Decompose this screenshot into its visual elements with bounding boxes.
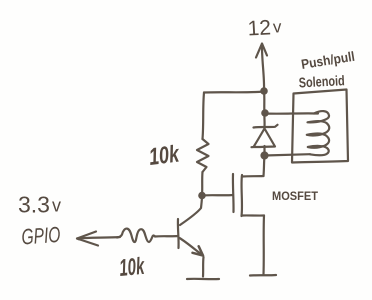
value label 10k for R1 (147, 140, 181, 171)
node junction dot C (solenoid top) (261, 109, 269, 117)
ground (BJT emitter) (187, 278, 219, 281)
svg-text:MOSFET: MOSFET (272, 189, 319, 203)
wire dot D to solenoid coil bottom (265, 154, 311, 155)
label 3.3v (18, 192, 61, 218)
wire node B to MOSFET gate (202, 194, 233, 197)
node junction dot D (solenoid bottom / drain) (260, 151, 268, 159)
GPIO arrow (pointing left) (77, 232, 120, 246)
label GPIO (21, 222, 62, 250)
MOSFET Q2 channel bar (240, 175, 243, 216)
wire R1 to node B (201, 172, 204, 195)
wire rail dot A to dot C (263, 91, 266, 114)
svg-text:10k: 10k (147, 140, 181, 171)
resistor R2 10k (horizontal, base) (117, 229, 155, 242)
ground (MOSFET source) (250, 274, 276, 277)
label Solenoid (298, 72, 345, 90)
wire left branch vertical down (203, 93, 205, 140)
label 12v supply (247, 16, 283, 41)
svg-text:3.3v: 3.3v (18, 192, 61, 218)
wire top horizontal to left branch (204, 92, 264, 93)
svg-text:10k: 10k (118, 253, 146, 282)
svg-text:12v: 12v (247, 16, 283, 41)
label Push/pull (300, 49, 356, 72)
transistor Q1 NPN: base bar (177, 219, 180, 248)
diode D1 cathode bar (254, 125, 278, 128)
diode D1 triangle (252, 129, 276, 148)
transistor Q1 NPN: emitter with arrow (180, 238, 204, 256)
wire dot C to diode cathode (263, 114, 265, 127)
resistor R1 10k (vertical) (197, 139, 209, 172)
power arrow 12V (256, 44, 267, 91)
wire dot C to solenoid coil (265, 112, 318, 115)
wire base in (155, 235, 178, 238)
wire source down (262, 216, 265, 275)
wire emitter down (202, 257, 205, 277)
wire dot D down to MOSFET drain (264, 156, 265, 177)
label MOSFET (272, 189, 319, 203)
MOSFET Q2 drain stub (242, 175, 264, 178)
svg-text:Push/pull: Push/pull (300, 49, 356, 72)
MOSFET Q2 source stub (242, 214, 264, 216)
MOSFET Q2 gate bar (232, 174, 235, 212)
transistor Q1 NPN: collector wire (180, 197, 202, 225)
svg-text:Solenoid: Solenoid (298, 72, 345, 90)
node junction dot B (gate / collector) (198, 192, 206, 200)
wire diode anode to node D (263, 146, 265, 156)
value label 10k for R2 (118, 253, 146, 282)
solenoid enclosure box (292, 90, 348, 163)
node junction dot A (12V rail / left branch) (260, 87, 268, 95)
svg-text:GPIO: GPIO (21, 222, 62, 250)
inductor L1 solenoid winding (307, 111, 329, 155)
